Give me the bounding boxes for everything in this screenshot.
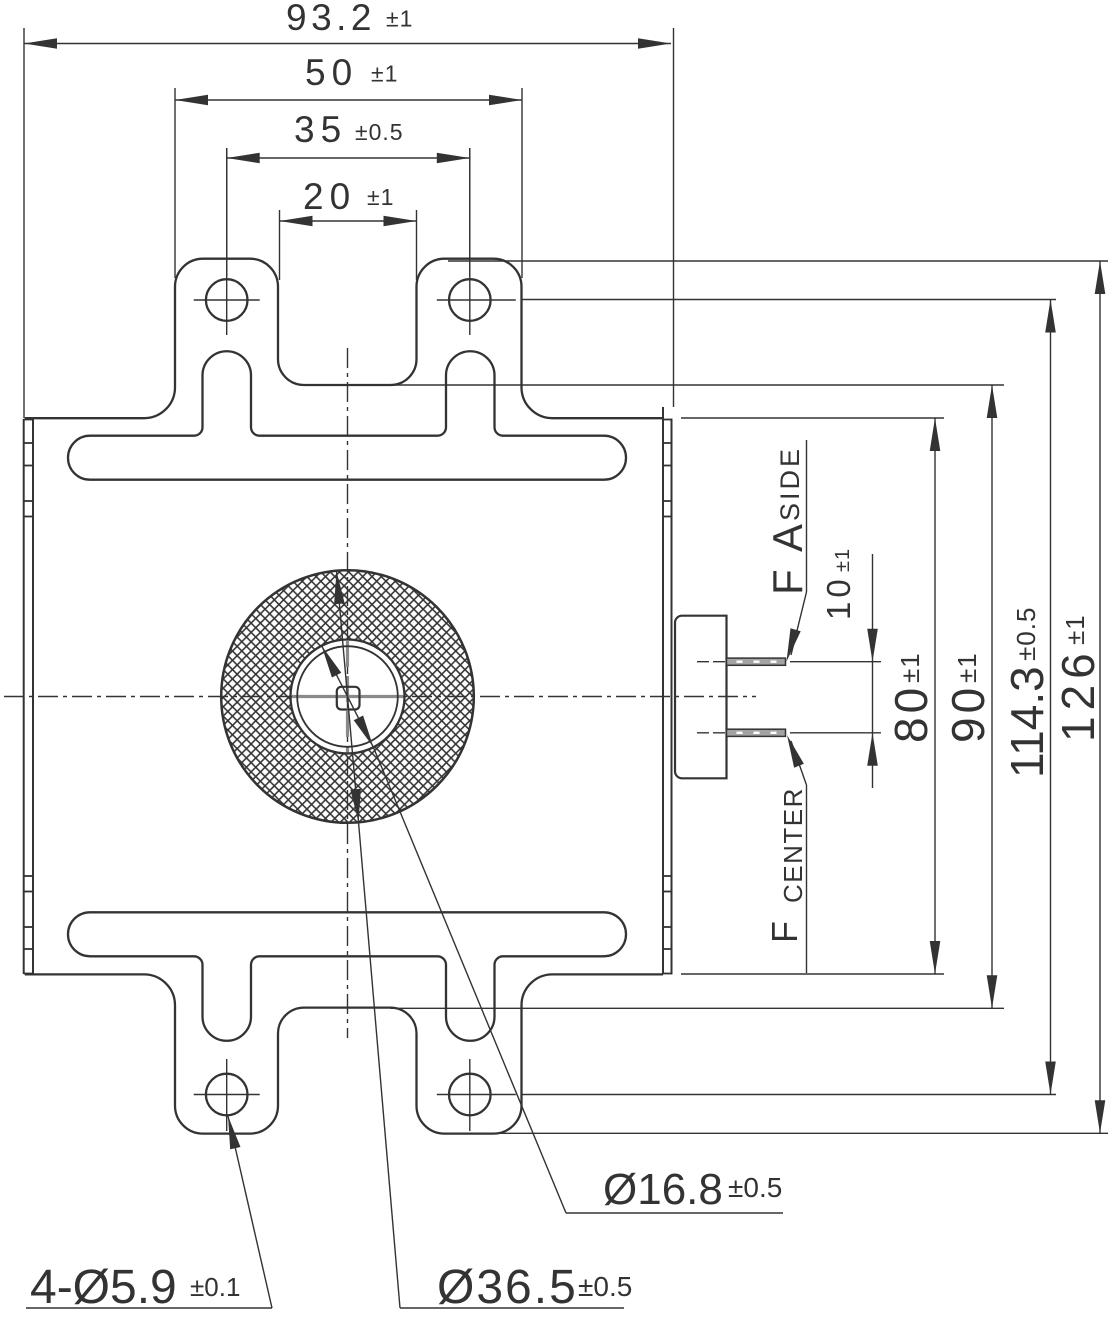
bottom-left mounting hole — [194, 1059, 260, 1131]
top mounting flange outline — [25, 259, 663, 419]
left cooling-fin edge strip — [24, 419, 33, 974]
top-left mounting hole — [194, 148, 260, 335]
upper terminal pin — [697, 658, 786, 665]
svg-text:±1: ±1 — [952, 652, 982, 683]
magnet bore center cross — [292, 641, 403, 753]
svg-text:±0.5: ±0.5 — [1011, 607, 1041, 661]
svg-text:35: 35 — [294, 109, 347, 150]
dimension 93.2 ±1 (overall width) — [24, 0, 674, 418]
dimension 114.3 ±0.5 (hole row spacing) — [522, 300, 1056, 1095]
upper left tab — [194, 351, 260, 435]
svg-text:±0.5: ±0.5 — [355, 119, 404, 145]
vertical centerline — [347, 348, 349, 1038]
svg-text:4-Ø5.9: 4-Ø5.9 — [30, 1261, 177, 1314]
svg-text:±1: ±1 — [371, 61, 398, 87]
dimension 80 ±1 (body height) — [681, 418, 944, 974]
magnet hatched ring fill — [221, 570, 474, 823]
dimension 10 ±1 (terminal spacing) — [790, 548, 881, 788]
dimension Ø36.5 ±0.5 (magnet OD) — [334, 571, 632, 1314]
svg-text:20: 20 — [303, 176, 356, 217]
svg-text:±1: ±1 — [386, 6, 413, 32]
dimension Ø16.8 ±0.5 (magnet bore) — [322, 646, 783, 1214]
svg-text:CENTER: CENTER — [778, 787, 808, 903]
svg-text:126: 126 — [1052, 647, 1104, 742]
dimension 90 ±1 (flange inner spacing) — [391, 385, 1005, 1008]
svg-text:80: 80 — [885, 684, 937, 743]
upper right tab — [438, 351, 504, 435]
svg-text:114.3: 114.3 — [1001, 666, 1053, 778]
dimension 4-Ø5.9 ±0.1 (mounting holes) — [26, 1116, 272, 1314]
upper cooling slot — [68, 436, 626, 480]
bottom-right mounting hole — [437, 1059, 516, 1131]
svg-text:Ø16.8: Ø16.8 — [603, 1165, 723, 1214]
magnet outer circle — [221, 570, 474, 823]
svg-text:93.2: 93.2 — [286, 0, 376, 38]
label F CENTER with leader — [764, 735, 808, 973]
magnet bore circle — [297, 646, 398, 747]
label FA SIDE with leader — [764, 440, 811, 662]
right cooling-fin edge strip — [663, 407, 672, 975]
top-right mounting hole — [437, 148, 516, 335]
svg-text:10: 10 — [820, 575, 857, 620]
center square hole — [337, 687, 360, 710]
lower right tab — [438, 956, 504, 1040]
svg-text:±0.5: ±0.5 — [578, 1271, 632, 1302]
filter box — [675, 616, 727, 779]
svg-text:90: 90 — [942, 684, 994, 743]
dimension 50 ±1 (ear spacing) — [175, 52, 522, 278]
dimension 35 ±0.5 (hole spacing) — [227, 109, 470, 276]
magnet inner circle — [291, 640, 405, 754]
lower cooling slot — [68, 912, 626, 956]
svg-text:±0.1: ±0.1 — [190, 1272, 240, 1302]
svg-text:SIDE: SIDE — [775, 446, 805, 521]
svg-text:50: 50 — [305, 52, 358, 93]
bottom mounting flange outline — [25, 974, 663, 1133]
dimension 126 ±1 (overall height) — [448, 261, 1108, 1133]
lower left tab — [194, 956, 260, 1040]
horizontal centerline — [4, 696, 756, 698]
svg-text:±1: ±1 — [895, 652, 925, 683]
crosshatch pattern def — [0, 0, 1, 1]
svg-text:±1: ±1 — [1060, 614, 1090, 645]
svg-text:±1: ±1 — [832, 548, 854, 572]
svg-text:Ø36.5: Ø36.5 — [437, 1261, 578, 1314]
svg-text:±1: ±1 — [367, 184, 394, 210]
svg-text:F A: F A — [764, 520, 811, 595]
svg-text:±0.5: ±0.5 — [728, 1172, 782, 1203]
dimension 20 ±1 (valley width) — [280, 176, 417, 280]
lower terminal pin — [697, 729, 786, 736]
svg-text:F: F — [764, 921, 805, 943]
